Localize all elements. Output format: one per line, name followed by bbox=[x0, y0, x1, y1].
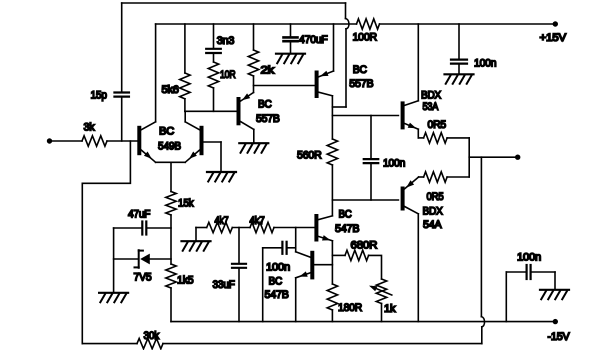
wire feedback bbox=[163, 157, 485, 343]
input terminal bbox=[47, 138, 82, 143]
wire bbox=[170, 162, 172, 191]
svg-text:BC: BC bbox=[269, 276, 283, 288]
ground bbox=[445, 74, 474, 84]
resistor 680R bbox=[332, 240, 377, 261]
svg-text:+15V: +15V bbox=[540, 32, 567, 44]
svg-text:2k: 2k bbox=[261, 65, 275, 77]
capacitor 15p bbox=[91, 3, 129, 141]
svg-text:BDX: BDX bbox=[423, 206, 444, 218]
svg-text:3k: 3k bbox=[84, 122, 96, 134]
wire bbox=[122, 2, 346, 4]
svg-text:53A: 53A bbox=[423, 101, 439, 113]
resistor 1k5 bbox=[166, 264, 194, 322]
capacitor 47uF bbox=[114, 209, 171, 235]
wire node A bbox=[332, 96, 398, 139]
svg-text:30k: 30k bbox=[144, 330, 160, 342]
transistor Q2 BC557B bbox=[239, 93, 254, 144]
svg-text:BC: BC bbox=[353, 64, 367, 76]
label BC 557B bbox=[256, 99, 280, 126]
svg-text:0R5: 0R5 bbox=[427, 191, 444, 203]
zener diode 7V5 bbox=[114, 250, 171, 283]
svg-text:557B: 557B bbox=[349, 78, 373, 90]
resistor 560R bbox=[297, 139, 338, 165]
capacitor 3n3 bbox=[206, 24, 234, 53]
svg-text:7V5: 7V5 bbox=[134, 272, 152, 284]
svg-text:180R: 180R bbox=[338, 302, 362, 314]
capacitor 100n decoupling + bbox=[451, 24, 496, 74]
resistor 4k7 bbox=[207, 215, 233, 233]
transistor Q5 BDX54A bbox=[403, 177, 419, 214]
+15V terminal bbox=[540, 21, 567, 44]
output terminal bbox=[469, 155, 520, 160]
wire bbox=[113, 228, 115, 293]
svg-text:33uF: 33uF bbox=[213, 279, 236, 291]
svg-text:0R5: 0R5 bbox=[428, 119, 447, 131]
capacitor 100n speedup bbox=[364, 116, 405, 201]
svg-text:54A: 54A bbox=[423, 219, 442, 231]
resistor 180R bbox=[327, 284, 362, 322]
svg-text:547B: 547B bbox=[335, 223, 359, 235]
resistor 2k bbox=[248, 24, 275, 93]
wire bbox=[156, 23, 357, 25]
svg-text:680R: 680R bbox=[351, 240, 378, 252]
svg-text:15k: 15k bbox=[178, 198, 194, 210]
-15V terminal bbox=[548, 319, 571, 343]
wire bbox=[274, 227, 314, 229]
wire bbox=[380, 23, 554, 25]
wire bbox=[331, 241, 333, 284]
wire node B bbox=[332, 165, 398, 216]
svg-text:-15V: -15V bbox=[548, 331, 571, 343]
svg-text:100R: 100R bbox=[353, 32, 378, 44]
svg-text:470uF: 470uF bbox=[299, 34, 328, 46]
resistor 0R5 lower bbox=[419, 172, 470, 203]
wire bbox=[220, 142, 222, 172]
svg-text:100n: 100n bbox=[266, 262, 290, 274]
svg-text:15p: 15p bbox=[91, 90, 107, 102]
svg-text:100n: 100n bbox=[517, 252, 541, 264]
transistor Q1a BC549B left bbox=[139, 122, 155, 163]
wire bbox=[196, 228, 207, 242]
svg-text:47uF: 47uF bbox=[128, 209, 151, 221]
ground bbox=[99, 293, 128, 303]
transistor Q7 BC547B bbox=[296, 252, 333, 278]
transistor Q1b BC549B right bbox=[185, 122, 221, 163]
svg-text:BDX: BDX bbox=[421, 90, 442, 102]
ground bbox=[207, 172, 236, 182]
label BC 549B bbox=[158, 126, 181, 153]
resistor 3k bbox=[82, 122, 107, 147]
resistor 10R bbox=[208, 54, 235, 111]
wire bbox=[156, 161, 186, 163]
resistor R 100R bbox=[353, 19, 380, 44]
resistor 0R5 upper bbox=[418, 119, 469, 143]
svg-text:BC: BC bbox=[258, 99, 272, 111]
ground bbox=[276, 54, 305, 64]
svg-text:3n3: 3n3 bbox=[217, 35, 235, 47]
svg-text:549B: 549B bbox=[158, 141, 181, 153]
transistor Q3 BC557B bbox=[317, 24, 334, 96]
capacitor 100n decoupling - bbox=[506, 252, 555, 322]
wire bbox=[254, 85, 315, 87]
wire feedback node bbox=[82, 141, 130, 344]
svg-text:1k: 1k bbox=[384, 303, 396, 315]
wire bbox=[295, 278, 297, 322]
label BC 547B bbox=[265, 276, 289, 302]
label BDX 54A bbox=[423, 206, 444, 232]
capacitor 100n driver bbox=[263, 242, 296, 274]
svg-text:557B: 557B bbox=[256, 113, 280, 125]
svg-text:5k6: 5k6 bbox=[162, 84, 179, 96]
svg-text:10R: 10R bbox=[220, 69, 236, 81]
resistor 30k bbox=[82, 330, 163, 349]
svg-text:1k5: 1k5 bbox=[177, 275, 194, 287]
ground bbox=[239, 143, 268, 153]
svg-text:100n: 100n bbox=[474, 58, 496, 70]
wire bbox=[155, 24, 157, 122]
wire bbox=[417, 214, 419, 322]
svg-text:547B: 547B bbox=[265, 289, 289, 301]
wire miller bbox=[332, 3, 349, 107]
wire bbox=[262, 248, 264, 322]
wire -15V rail bbox=[171, 321, 553, 323]
wire bbox=[295, 228, 297, 252]
transistor Q6 BC547B bbox=[316, 216, 332, 241]
svg-text:BC: BC bbox=[159, 126, 174, 138]
capacitor 33uF bbox=[213, 228, 247, 322]
wire bbox=[369, 255, 382, 279]
wire bbox=[232, 227, 250, 229]
wire bbox=[185, 110, 237, 112]
svg-text:4k7: 4k7 bbox=[250, 215, 265, 227]
resistor 4k7 second bbox=[250, 215, 275, 233]
resistor 15k bbox=[166, 192, 194, 265]
potentiometer 1k bbox=[369, 279, 396, 322]
svg-text:BC: BC bbox=[339, 209, 352, 221]
wire bbox=[417, 24, 419, 101]
transistor Q4 BDX53A bbox=[403, 101, 419, 129]
svg-text:560R: 560R bbox=[297, 150, 322, 162]
label BC 557B bbox=[349, 64, 373, 90]
label BDX 53A bbox=[421, 90, 442, 114]
resistor 5k6 bbox=[162, 24, 191, 111]
wire bbox=[468, 138, 470, 177]
wire bbox=[184, 111, 186, 122]
ground bbox=[540, 290, 569, 300]
wire bbox=[107, 140, 137, 142]
capacitor 470uF bbox=[284, 24, 329, 54]
label BC 547B bbox=[335, 209, 359, 236]
ground bbox=[182, 241, 211, 251]
svg-text:100n: 100n bbox=[383, 158, 405, 170]
svg-text:4k7: 4k7 bbox=[215, 215, 229, 227]
